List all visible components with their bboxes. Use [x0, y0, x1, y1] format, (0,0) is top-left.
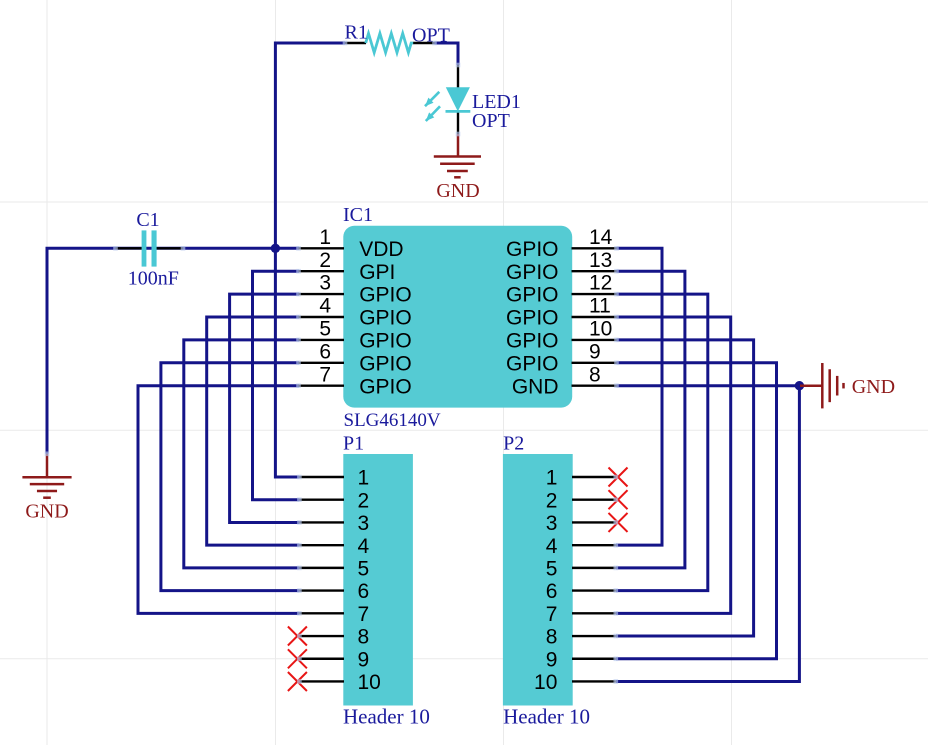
- svg-text:14: 14: [589, 226, 613, 249]
- svg-text:4: 4: [319, 295, 331, 318]
- svg-text:GPIO: GPIO: [506, 307, 559, 330]
- svg-text:Header 10: Header 10: [343, 705, 430, 729]
- svg-text:10: 10: [534, 671, 557, 694]
- svg-text:2: 2: [319, 249, 331, 272]
- svg-text:9: 9: [358, 648, 370, 671]
- svg-text:8: 8: [358, 626, 370, 649]
- svg-text:8: 8: [589, 363, 601, 386]
- svg-text:R1: R1: [345, 22, 368, 44]
- svg-text:GPI: GPI: [359, 261, 395, 284]
- svg-text:1: 1: [546, 467, 558, 490]
- svg-text:6: 6: [546, 580, 558, 603]
- svg-text:3: 3: [319, 272, 331, 295]
- svg-text:GPIO: GPIO: [506, 261, 559, 284]
- svg-text:9: 9: [546, 648, 558, 671]
- svg-text:GND: GND: [436, 180, 479, 202]
- svg-text:OPT: OPT: [472, 110, 510, 132]
- svg-text:GPIO: GPIO: [506, 330, 559, 353]
- svg-text:SLG46140V: SLG46140V: [344, 410, 441, 431]
- svg-text:11: 11: [589, 295, 611, 318]
- svg-text:P2: P2: [503, 433, 524, 455]
- svg-text:4: 4: [546, 535, 558, 558]
- svg-text:GPIO: GPIO: [506, 352, 559, 375]
- svg-text:GPIO: GPIO: [359, 307, 412, 330]
- svg-text:P1: P1: [343, 433, 364, 455]
- svg-text:1: 1: [358, 467, 370, 490]
- svg-text:GPIO: GPIO: [359, 284, 412, 307]
- svg-text:Header 10: Header 10: [503, 705, 590, 729]
- svg-text:GND: GND: [852, 376, 895, 398]
- svg-text:2: 2: [546, 489, 558, 512]
- svg-text:5: 5: [358, 557, 370, 580]
- svg-text:13: 13: [589, 249, 612, 272]
- svg-text:GND: GND: [25, 501, 68, 523]
- svg-text:GND: GND: [512, 375, 559, 398]
- svg-text:6: 6: [358, 580, 370, 603]
- svg-text:GPIO: GPIO: [359, 375, 412, 398]
- svg-text:OPT: OPT: [412, 25, 450, 47]
- svg-text:C1: C1: [136, 209, 159, 231]
- svg-text:12: 12: [589, 272, 612, 295]
- svg-text:10: 10: [358, 671, 381, 694]
- svg-text:3: 3: [546, 512, 558, 535]
- svg-text:5: 5: [319, 318, 331, 341]
- svg-text:6: 6: [319, 340, 331, 363]
- svg-text:1: 1: [319, 226, 331, 249]
- svg-text:IC1: IC1: [343, 204, 373, 226]
- svg-text:VDD: VDD: [359, 238, 403, 261]
- svg-text:5: 5: [546, 557, 558, 580]
- svg-text:100nF: 100nF: [128, 267, 179, 289]
- svg-text:4: 4: [358, 535, 370, 558]
- svg-text:9: 9: [589, 340, 601, 363]
- svg-text:7: 7: [358, 603, 370, 626]
- svg-text:2: 2: [358, 489, 370, 512]
- svg-text:3: 3: [358, 512, 370, 535]
- svg-text:GPIO: GPIO: [506, 238, 559, 261]
- svg-text:GPIO: GPIO: [359, 330, 412, 353]
- svg-text:8: 8: [546, 626, 558, 649]
- svg-text:GPIO: GPIO: [506, 284, 559, 307]
- svg-text:10: 10: [589, 318, 612, 341]
- svg-text:7: 7: [546, 603, 558, 626]
- svg-text:7: 7: [319, 363, 331, 386]
- svg-text:GPIO: GPIO: [359, 352, 412, 375]
